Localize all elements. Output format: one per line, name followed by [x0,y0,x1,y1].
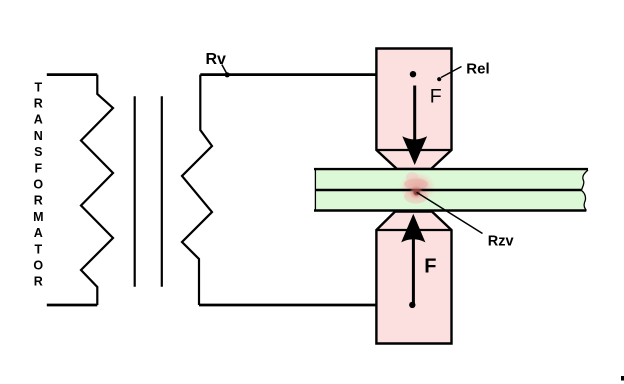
svg-text:O: O [33,259,43,273]
svg-text:Rzv: Rzv [488,233,514,249]
winding L1 primary zigzag [81,75,113,305]
node dot in bottom electrode [409,302,415,308]
force arrow down (top electrode) [413,86,416,142]
svg-text:F: F [430,86,442,108]
wire secondary bottom [199,304,412,307]
svg-text:F: F [424,255,436,277]
svg-text:F: F [34,161,42,175]
weld nugget core halo [409,185,423,199]
svg-text:T: T [34,242,42,256]
leader Rel [441,67,462,78]
svg-text:A: A [34,113,43,127]
electrode top (Rel) body [376,49,451,170]
node Rv junction dot [225,72,230,77]
svg-text:N: N [34,129,43,143]
svg-text:O: O [33,178,43,192]
svg-text:R: R [34,194,43,208]
transformer core line left [134,96,136,286]
svg-text:R: R [34,97,43,111]
svg-text:Rel: Rel [466,61,489,78]
weld nugget glow [399,172,436,203]
svg-text:S: S [34,145,42,159]
wire primary top [47,73,98,76]
electrode top bottom edge [376,149,451,151]
weld nugget core Rzv [413,189,419,195]
electrode bottom body [376,212,451,344]
sheet right torn edge [582,170,589,211]
svg-text:M: M [33,210,43,224]
winding L2 secondary zigzag [182,75,212,305]
leader Rv [222,65,227,75]
wire primary bottom [47,304,98,307]
sheet bottom edge [314,209,586,211]
transformer label TRANSFORMATOR [33,80,43,288]
dot Rel pointer [437,77,441,81]
transformer core line right [161,96,163,286]
wire secondary top [200,73,413,76]
electrode bottom top edge [376,229,451,231]
leader Rzv [417,192,483,233]
sheet top edge [314,168,588,170]
sheet middle seam [316,189,581,192]
svg-text:A: A [34,226,43,240]
workpiece sheets (green) [315,169,588,211]
svg-text:T: T [34,80,42,94]
svg-text:R: R [34,275,43,289]
sheet left edge [314,170,316,211]
node dot in top electrode [410,71,416,77]
force arrow up (bottom electrode) [412,239,415,304]
